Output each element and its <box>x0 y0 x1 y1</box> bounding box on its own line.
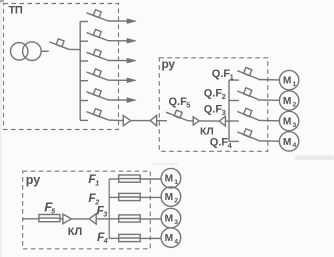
breaker TP feeder 3 <box>87 52 109 60</box>
wire fuse F5 to cable <box>60 218 63 220</box>
arrow TP feeder 1 <box>127 19 136 24</box>
svg-text:КЛ: КЛ <box>68 226 82 238</box>
wire TP feeder 5 out <box>108 99 127 101</box>
wire TP feeder 4 out <box>108 79 127 81</box>
cable termination KL1 left <box>123 115 131 125</box>
wire bus to fuse F2 <box>109 196 119 198</box>
cable termination KL2 right <box>219 116 225 126</box>
breaker TP feeder 5 <box>87 92 109 100</box>
wire breaker to bus <box>69 48 80 50</box>
cable termination KL2 left <box>193 117 199 125</box>
svg-text:4: 4 <box>174 238 178 245</box>
cable termination KL3 left <box>63 214 72 224</box>
svg-text:ру: ру <box>162 57 176 71</box>
svg-text:1: 1 <box>174 179 178 186</box>
wire QF5 to cable <box>188 120 194 122</box>
breaker QF0 (TP input) <box>49 42 69 49</box>
transformer T1 <box>11 43 28 60</box>
wire stub TP feeder 2 <box>80 40 88 42</box>
wire cable to bus <box>96 218 109 220</box>
wire stub TP feeder 5 <box>80 100 88 102</box>
svg-text:Q.F: Q.F <box>169 96 188 108</box>
breaker QF4 <box>237 132 258 141</box>
breaker TP feeder 2 <box>87 33 109 41</box>
svg-text:1: 1 <box>293 81 297 88</box>
fuse F1 <box>119 178 141 180</box>
wire stub TP feeder 3 <box>80 60 88 62</box>
svg-text:3: 3 <box>293 122 297 129</box>
wire fuse F2 to motor <box>140 196 161 198</box>
breaker QF3 <box>237 112 258 121</box>
breaker QF1 <box>237 71 258 80</box>
svg-text:Q.F: Q.F <box>204 88 223 100</box>
svg-text:Q.F: Q.F <box>204 104 223 116</box>
arrow TP feeder 3 <box>127 58 136 63</box>
breaker TP feeder 6 <box>87 112 109 120</box>
wire TP feeder 1 out <box>108 20 127 22</box>
cable termination KL1 right <box>150 115 156 125</box>
svg-text:М: М <box>283 117 292 128</box>
svg-text:КЛ: КЛ <box>200 125 214 137</box>
wire RU feeder 2 to motor <box>258 99 279 101</box>
svg-text:3: 3 <box>103 210 107 219</box>
bus TP <box>79 22 81 121</box>
svg-text:М: М <box>165 233 174 244</box>
svg-text:4: 4 <box>293 142 297 149</box>
wire transformer to breaker <box>41 50 49 52</box>
svg-text:М: М <box>283 137 292 148</box>
svg-text:М: М <box>165 214 174 225</box>
motor M3 (upper) <box>279 111 298 130</box>
breaker TP feeder 4 <box>87 72 109 80</box>
fuse F2 <box>119 196 141 198</box>
enclosure ru dashed box (bottom) <box>23 171 151 249</box>
wire bus to fuse F3 <box>109 218 119 220</box>
svg-text:5: 5 <box>186 101 190 110</box>
wire TP feeder 2 out <box>108 40 127 42</box>
wire stub RU feeder 2 <box>229 100 239 102</box>
motor M1 (bottom) <box>161 168 181 188</box>
wire stub RU feeder 3 <box>229 120 239 122</box>
breaker QF2 <box>237 91 258 100</box>
wire TP feeder 6 to cable <box>108 119 123 122</box>
motor M4 (upper) <box>279 132 298 151</box>
svg-text:М: М <box>165 174 174 185</box>
svg-text:2: 2 <box>174 197 178 204</box>
wire stub RU feeder 1 <box>229 79 239 81</box>
wire fuse F1 to motor <box>140 178 161 180</box>
svg-text:ру: ру <box>26 173 40 187</box>
arrow TP feeder 4 <box>127 78 136 83</box>
wire bus to fuse F4 <box>109 237 119 239</box>
svg-text:Q.F: Q.F <box>210 137 229 149</box>
wire cable KL1 <box>131 120 151 122</box>
wire stub TP feeder 1 <box>80 21 88 23</box>
fuse F3 <box>119 218 141 220</box>
breaker TP feeder 1 <box>87 13 109 21</box>
bus RU <box>228 80 230 141</box>
wire cable to bus RU <box>225 120 229 122</box>
svg-text:ТП: ТП <box>9 4 23 16</box>
enclosure RU dashed box <box>159 58 267 152</box>
svg-text:3: 3 <box>222 108 226 117</box>
wire in from box edge <box>23 218 39 220</box>
svg-text:М: М <box>283 96 292 107</box>
arrow TP feeder 2 <box>127 38 136 43</box>
motor M3 (bottom) <box>161 208 181 228</box>
fuse F4 <box>119 237 141 239</box>
breaker QF5 (RU input) <box>166 112 188 120</box>
svg-text:1: 1 <box>95 178 99 187</box>
wire RU feeder 3 to motor <box>258 119 279 121</box>
svg-text:2: 2 <box>293 101 297 108</box>
wire fuse F3 to motor <box>140 218 161 220</box>
wire stub TP feeder 4 <box>80 80 88 82</box>
wire cable KL3 <box>71 218 89 220</box>
wire stub RU feeder 4 <box>229 140 239 142</box>
motor M2 (bottom) <box>161 187 181 207</box>
wire bus to fuse F1 <box>109 178 119 180</box>
arrow TP feeder 5 <box>127 98 136 103</box>
motor M4 (bottom) <box>161 228 181 248</box>
motor M2 (upper) <box>279 91 298 110</box>
wire TP feeder 3 out <box>108 60 127 62</box>
motor M1 (upper) <box>279 70 298 89</box>
wire stub TP feeder 6 <box>80 119 88 121</box>
wire into RU box <box>157 120 167 122</box>
cable termination KL3 right <box>89 214 96 224</box>
wire RU feeder 4 to motor <box>258 140 279 142</box>
svg-text:4: 4 <box>103 236 108 245</box>
enclosure TP dashed box <box>4 4 119 130</box>
wire RU feeder 1 to motor <box>258 79 279 81</box>
fuse F5 <box>39 217 60 219</box>
bus ru (bottom) <box>108 179 110 238</box>
svg-text:М: М <box>283 76 292 87</box>
wire fuse F4 to motor <box>140 237 161 239</box>
svg-text:М: М <box>165 192 174 203</box>
svg-text:Q.F: Q.F <box>212 68 231 80</box>
svg-text:2: 2 <box>222 92 226 101</box>
svg-text:3: 3 <box>174 219 178 226</box>
wire cable KL2 <box>199 120 219 122</box>
